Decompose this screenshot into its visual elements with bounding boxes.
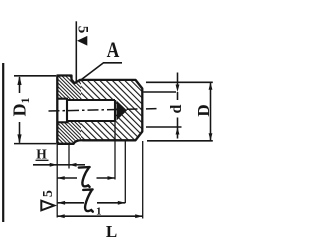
- svg-text:L: L: [106, 222, 117, 241]
- axis centerline (dash-dot): [49, 109, 157, 111]
- bushing outer profile outline: [57, 76, 142, 144]
- svg-text:H: H: [36, 146, 47, 161]
- svg-text:d: d: [168, 104, 185, 113]
- extension lines to bottom dimensions: [56, 144, 58, 218]
- svg-text:5: 5: [75, 26, 91, 34]
- svg-text:5: 5: [41, 190, 56, 197]
- dimension l (bore depth): [57, 177, 77, 179]
- surface finish mark nabla-5 (top flag): [75, 21, 77, 82]
- dimension L (overall length): [57, 215, 143, 217]
- surface finish mark nabla-5 (bottom left): [41, 190, 56, 197]
- section hatching (flange + body walls): [50, 70, 200, 150]
- svg-text:D: D: [194, 104, 213, 116]
- drill-point cone at bore end: [117, 101, 128, 121]
- page rule line (left margin): [2, 63, 4, 222]
- svg-text:D1: D1: [10, 98, 33, 117]
- svg-text:A: A: [107, 38, 120, 62]
- dimension l1 (depth to drill point): [58, 202, 84, 204]
- blind bore with counterbore step: [57, 99, 115, 123]
- dimension d (end diameter, inner right): [146, 81, 213, 83]
- chamfer callout A with leader: [79, 63, 123, 82]
- dimension D (body diameter, outer right): [147, 140, 213, 142]
- dimension D1 (flange diameter, left): [14, 75, 56, 77]
